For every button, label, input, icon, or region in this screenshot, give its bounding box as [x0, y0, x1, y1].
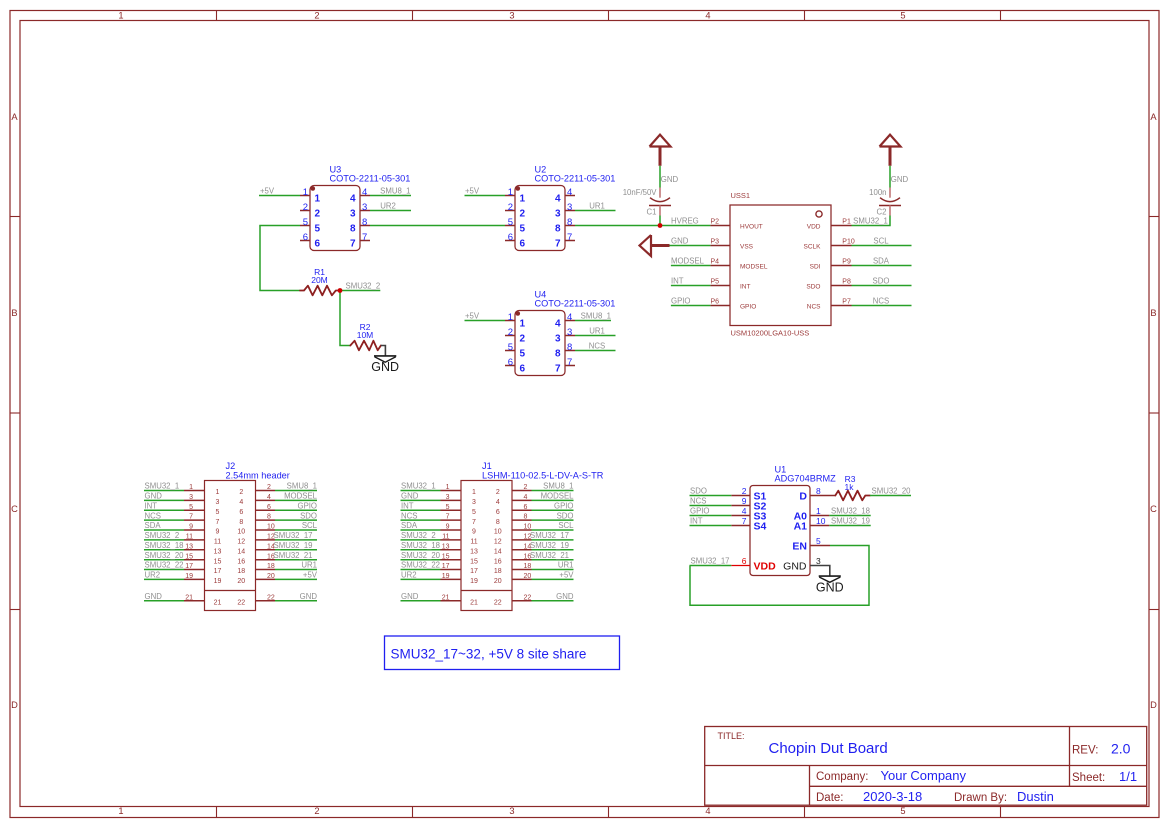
wire net SDO to U1	[690, 487, 732, 496]
frame column numbers bottom	[118, 806, 905, 816]
svg-text:SDO: SDO	[873, 277, 890, 286]
wire net NCS at USS1 P7	[852, 297, 912, 306]
svg-text:SCL: SCL	[302, 521, 318, 530]
svg-text:P9: P9	[842, 259, 851, 266]
svg-text:15: 15	[214, 558, 222, 565]
svg-text:8: 8	[555, 224, 561, 235]
svg-text:14: 14	[237, 549, 245, 556]
svg-text:+5V: +5V	[465, 187, 480, 196]
svg-text:4: 4	[555, 319, 561, 330]
svg-text:13: 13	[185, 543, 193, 550]
svg-text:18: 18	[494, 568, 502, 575]
svg-text:COTO-2211-05-301: COTO-2211-05-301	[330, 173, 411, 183]
svg-text:1: 1	[315, 194, 321, 205]
svg-text:SDA: SDA	[145, 521, 162, 530]
svg-text:6: 6	[303, 232, 308, 243]
wire net MODSEL at USS1 P4	[671, 257, 711, 266]
junction node SMU32_2	[338, 288, 343, 293]
svg-text:2: 2	[508, 202, 513, 213]
svg-text:22: 22	[494, 600, 502, 607]
frame row letters	[11, 112, 1157, 710]
wire net SMU8_1 from U3 pin 4	[370, 187, 411, 196]
wire net HVREG bus U3 pin5/pin8 to U2 pin5	[259, 225, 505, 227]
svg-text:4: 4	[567, 312, 572, 323]
relay U4 COTO-2211-05-301	[505, 289, 615, 375]
wire net NCS from U4 pin 8	[575, 342, 616, 351]
svg-text:3: 3	[350, 209, 356, 220]
svg-text:18: 18	[524, 563, 532, 570]
svg-text:1/1: 1/1	[1119, 769, 1137, 784]
ground GND at R2	[371, 346, 399, 374]
svg-text:8: 8	[555, 349, 561, 360]
svg-text:6: 6	[524, 504, 528, 511]
svg-text:4: 4	[239, 499, 243, 506]
svg-text:Drawn By:: Drawn By:	[954, 792, 1007, 804]
svg-text:2.0: 2.0	[1111, 741, 1131, 757]
svg-text:8: 8	[816, 486, 821, 496]
svg-text:SMU32_22: SMU32_22	[145, 561, 184, 570]
svg-text:7: 7	[362, 232, 367, 243]
svg-text:GND: GND	[816, 581, 844, 595]
svg-text:USS1: USS1	[731, 191, 751, 200]
svg-text:3: 3	[509, 806, 514, 816]
svg-text:7: 7	[567, 357, 572, 368]
svg-text:COTO-2211-05-301: COTO-2211-05-301	[535, 298, 616, 308]
svg-text:12: 12	[494, 539, 502, 546]
svg-text:D: D	[11, 700, 18, 710]
svg-text:5: 5	[520, 349, 526, 360]
svg-text:22: 22	[237, 600, 245, 607]
svg-text:EN: EN	[792, 541, 807, 553]
svg-text:8: 8	[239, 519, 243, 526]
svg-text:SMU32_2: SMU32_2	[145, 531, 180, 540]
svg-text:2: 2	[524, 484, 528, 491]
svg-text:A: A	[11, 112, 18, 122]
power flag GND above C2	[880, 135, 909, 188]
svg-text:2: 2	[520, 334, 526, 345]
svg-text:SMU32_2: SMU32_2	[401, 531, 436, 540]
svg-text:SCL: SCL	[873, 237, 889, 246]
svg-text:P5: P5	[710, 279, 719, 286]
svg-text:3: 3	[816, 556, 821, 566]
svg-text:18: 18	[237, 568, 245, 575]
connector J2 2.54mm header	[144, 461, 318, 611]
svg-text:11: 11	[470, 539, 477, 546]
svg-text:NCS: NCS	[589, 342, 605, 351]
svg-text:GPIO: GPIO	[740, 304, 756, 311]
svg-text:GND: GND	[891, 175, 909, 184]
svg-text:C: C	[11, 504, 18, 514]
svg-text:9: 9	[472, 529, 476, 536]
sheet text	[1072, 769, 1137, 784]
svg-text:7: 7	[446, 514, 450, 521]
svg-text:2: 2	[508, 327, 513, 338]
svg-text:NCS: NCS	[145, 511, 161, 520]
svg-text:INT: INT	[401, 502, 414, 511]
svg-text:P4: P4	[710, 259, 719, 266]
svg-text:21: 21	[214, 600, 222, 607]
wire U1 EN loop to VDD	[690, 546, 869, 606]
svg-text:21: 21	[185, 594, 193, 601]
svg-text:8: 8	[362, 217, 367, 228]
svg-text:8: 8	[567, 342, 572, 353]
svg-text:100n: 100n	[869, 188, 886, 197]
svg-text:C: C	[1150, 504, 1157, 514]
svg-text:B: B	[1150, 308, 1156, 318]
svg-text:SCLK: SCLK	[804, 244, 822, 251]
svg-text:6: 6	[496, 509, 500, 516]
svg-text:5: 5	[520, 224, 526, 235]
svg-text:19: 19	[185, 573, 193, 580]
svg-text:4: 4	[567, 187, 572, 198]
svg-text:10: 10	[816, 516, 826, 526]
svg-text:5: 5	[446, 504, 450, 511]
wire HVREG bus left drop to R1	[260, 226, 300, 291]
wire net UR2 from U3 pin 3	[370, 202, 411, 211]
svg-text:SMU32_17: SMU32_17	[530, 531, 569, 540]
net label HVREG at USS1 P2	[671, 217, 699, 226]
svg-text:GND: GND	[300, 592, 318, 601]
svg-text:5: 5	[900, 806, 905, 816]
svg-text:9: 9	[446, 524, 450, 531]
capacitor C1 10nF/50V	[623, 188, 671, 226]
title text	[718, 731, 888, 757]
svg-text:C1: C1	[647, 208, 657, 217]
wire net SDA at USS1 P9	[852, 257, 912, 266]
svg-text:4: 4	[555, 194, 561, 205]
svg-text:4: 4	[350, 194, 356, 205]
svg-text:P1: P1	[842, 219, 851, 226]
svg-text:11: 11	[186, 534, 193, 541]
svg-text:1: 1	[446, 484, 450, 491]
svg-text:SMU32_1: SMU32_1	[853, 217, 888, 226]
relay U3 COTO-2211-05-301	[300, 164, 410, 250]
svg-text:SDO: SDO	[557, 511, 574, 520]
svg-text:UR1: UR1	[589, 327, 605, 336]
svg-text:2: 2	[267, 484, 271, 491]
svg-text:SCL: SCL	[558, 521, 574, 530]
svg-text:SMU32_20: SMU32_20	[872, 487, 912, 496]
svg-text:GND: GND	[371, 360, 399, 374]
analog switch U1 ADG704BRMZ	[731, 465, 836, 577]
svg-text:8: 8	[496, 519, 500, 526]
svg-text:3: 3	[567, 202, 572, 213]
svg-text:2: 2	[742, 486, 747, 496]
svg-text:7: 7	[555, 239, 561, 250]
wire net UR1 from U2 pin 3	[575, 202, 616, 211]
svg-text:5: 5	[216, 509, 220, 516]
svg-text:B: B	[11, 308, 17, 318]
svg-text:2.54mm header: 2.54mm header	[226, 470, 290, 480]
svg-text:MODSEL: MODSEL	[740, 264, 768, 271]
svg-text:8: 8	[350, 224, 356, 235]
svg-text:2: 2	[303, 202, 308, 213]
svg-text:SDO: SDO	[300, 511, 317, 520]
power flag GND above C1	[650, 135, 679, 188]
svg-text:VDD: VDD	[754, 561, 777, 573]
svg-text:TITLE:: TITLE:	[718, 731, 745, 741]
svg-text:+5V: +5V	[260, 187, 275, 196]
svg-text:4: 4	[362, 187, 367, 198]
svg-text:7: 7	[567, 232, 572, 243]
svg-text:5: 5	[303, 217, 308, 228]
svg-text:5: 5	[472, 509, 476, 516]
svg-text:SMU32_18: SMU32_18	[401, 541, 440, 550]
frame column numbers top	[118, 10, 905, 20]
wire net SMU32_2 from R1	[340, 282, 380, 291]
capacitor C2 100n	[869, 188, 901, 217]
wire net GPIO to U1	[690, 507, 732, 516]
resistor R3 1k	[835, 474, 870, 500]
svg-text:P10: P10	[842, 239, 855, 246]
svg-text:8: 8	[267, 514, 271, 521]
svg-text:6: 6	[520, 239, 526, 250]
svg-text:SDO: SDO	[690, 487, 707, 496]
svg-text:3: 3	[446, 494, 450, 501]
svg-text:20M: 20M	[311, 275, 328, 285]
svg-text:SDI: SDI	[810, 264, 821, 271]
svg-text:5: 5	[508, 217, 513, 228]
svg-text:A: A	[1150, 112, 1157, 122]
svg-text:2: 2	[496, 489, 500, 496]
rev text	[1072, 741, 1131, 757]
svg-text:SMU8_1: SMU8_1	[287, 482, 317, 491]
svg-text:P3: P3	[710, 239, 719, 246]
wire net SCL at USS1 P10	[852, 237, 912, 246]
svg-text:P7: P7	[842, 299, 851, 306]
svg-text:4: 4	[705, 10, 710, 20]
svg-text:3: 3	[216, 499, 220, 506]
svg-text:Your Company: Your Company	[881, 768, 967, 783]
svg-text:USM10200LGA10-USS: USM10200LGA10-USS	[731, 329, 810, 338]
svg-text:6: 6	[315, 239, 321, 250]
svg-text:GND: GND	[783, 561, 807, 573]
svg-text:SMU32_19: SMU32_19	[530, 541, 569, 550]
svg-text:P6: P6	[710, 299, 719, 306]
svg-text:9: 9	[742, 496, 747, 506]
svg-text:UR2: UR2	[145, 571, 161, 580]
svg-text:HVOUT: HVOUT	[740, 224, 763, 231]
wire net SMU8_1 from U4 pin 4	[575, 312, 611, 321]
svg-text:4: 4	[742, 506, 747, 516]
svg-text:1: 1	[216, 489, 220, 496]
svg-text:HVREG: HVREG	[671, 217, 699, 226]
svg-text:10: 10	[237, 529, 245, 536]
svg-text:3: 3	[567, 327, 572, 338]
ground flag GND at USS1 P3	[640, 235, 711, 256]
svg-text:1: 1	[472, 489, 476, 496]
svg-text:MODSEL: MODSEL	[284, 492, 318, 501]
svg-text:SMU32_20: SMU32_20	[401, 551, 441, 560]
svg-text:17: 17	[470, 568, 478, 575]
svg-text:13: 13	[214, 549, 222, 556]
svg-text:17: 17	[442, 563, 450, 570]
svg-text:18: 18	[267, 563, 275, 570]
svg-text:2: 2	[315, 209, 321, 220]
svg-text:MODSEL: MODSEL	[671, 257, 705, 266]
svg-text:SMU32_17: SMU32_17	[274, 531, 313, 540]
svg-text:UR2: UR2	[401, 571, 417, 580]
svg-text:LSHM-110-02.5-L-DV-A-S-TR: LSHM-110-02.5-L-DV-A-S-TR	[482, 470, 604, 480]
svg-text:3: 3	[555, 334, 561, 345]
svg-text:10M: 10M	[357, 330, 374, 340]
svg-text:3: 3	[509, 10, 514, 20]
svg-text:INT: INT	[740, 284, 751, 291]
svg-text:7: 7	[216, 519, 220, 526]
svg-text:GND: GND	[145, 492, 163, 501]
svg-text:S4: S4	[754, 521, 767, 533]
svg-text:10: 10	[267, 524, 275, 531]
resistor R2 10M	[350, 322, 381, 350]
svg-text:6: 6	[520, 364, 526, 375]
svg-text:10nF/50V: 10nF/50V	[623, 188, 658, 197]
date text	[816, 789, 1054, 804]
svg-text:1k: 1k	[845, 482, 855, 492]
wire net SMU32_19 from U1 A1	[829, 517, 870, 526]
svg-text:Date:: Date:	[816, 792, 844, 804]
resistor R1 20M	[300, 267, 340, 295]
svg-text:21: 21	[470, 600, 478, 607]
svg-text:16: 16	[494, 558, 502, 565]
svg-text:20: 20	[494, 578, 502, 585]
svg-text:21: 21	[442, 594, 450, 601]
svg-text:5: 5	[315, 224, 321, 235]
svg-text:GND: GND	[671, 237, 689, 246]
svg-text:SDO: SDO	[806, 284, 820, 291]
svg-text:15: 15	[442, 553, 450, 560]
svg-text:7: 7	[350, 239, 356, 250]
svg-text:20: 20	[237, 578, 245, 585]
svg-text:GND: GND	[401, 592, 419, 601]
svg-text:INT: INT	[690, 517, 703, 526]
wire net SMU32_20 from R3	[870, 487, 911, 496]
wire net SDO at USS1 P8	[852, 277, 912, 286]
svg-text:15: 15	[470, 558, 478, 565]
svg-text:Dustin: Dustin	[1017, 789, 1054, 804]
svg-text:2: 2	[314, 806, 319, 816]
svg-text:19: 19	[470, 578, 478, 585]
svg-text:3: 3	[472, 499, 476, 506]
connector J1 LSHM-110-02.5-L-DV-A-S-TR	[401, 461, 604, 611]
svg-text:P2: P2	[710, 219, 719, 226]
svg-text:19: 19	[442, 573, 450, 580]
svg-text:10: 10	[494, 529, 502, 536]
svg-text:NCS: NCS	[401, 511, 417, 520]
svg-text:SMU32_19: SMU32_19	[831, 517, 870, 526]
wire net +5V to U4 pin 1	[465, 312, 506, 321]
svg-text:2: 2	[239, 489, 243, 496]
svg-text:11: 11	[214, 539, 221, 546]
svg-text:4: 4	[705, 806, 710, 816]
svg-text:GND: GND	[556, 592, 574, 601]
svg-text:5: 5	[816, 536, 821, 546]
svg-text:6: 6	[239, 509, 243, 516]
svg-text:NCS: NCS	[807, 304, 821, 311]
svg-text:13: 13	[470, 549, 478, 556]
svg-text:6: 6	[267, 504, 271, 511]
wire net +5V to U2 pin 1	[465, 187, 506, 196]
svg-text:13: 13	[442, 543, 450, 550]
svg-text:+5V: +5V	[303, 571, 318, 580]
svg-text:SMU32_21: SMU32_21	[530, 551, 569, 560]
svg-text:COTO-2211-05-301: COTO-2211-05-301	[535, 173, 616, 183]
svg-text:SMU32_18: SMU32_18	[831, 507, 870, 516]
svg-text:SMU8_1: SMU8_1	[543, 482, 573, 491]
svg-text:SDA: SDA	[401, 521, 418, 530]
svg-text:7: 7	[555, 364, 561, 375]
svg-text:GPIO: GPIO	[298, 502, 318, 511]
svg-text:UR2: UR2	[380, 202, 396, 211]
svg-text:SMU32_1: SMU32_1	[401, 482, 436, 491]
svg-text:SMU32_18: SMU32_18	[145, 541, 184, 550]
svg-text:17: 17	[185, 563, 193, 570]
svg-text:8: 8	[524, 514, 528, 521]
svg-text:5: 5	[189, 504, 193, 511]
junction node HVREG at C1	[658, 223, 663, 228]
svg-text:2: 2	[314, 10, 319, 20]
svg-text:A1: A1	[794, 521, 808, 533]
svg-text:1: 1	[118, 806, 123, 816]
svg-text:8: 8	[567, 217, 572, 228]
svg-text:INT: INT	[145, 502, 158, 511]
svg-text:7: 7	[742, 516, 747, 526]
svg-text:D: D	[1150, 700, 1157, 710]
note box SMU32 share	[385, 636, 620, 670]
svg-text:3: 3	[189, 494, 193, 501]
svg-text:1: 1	[189, 484, 193, 491]
svg-text:INT: INT	[671, 277, 684, 286]
svg-text:VDD: VDD	[807, 224, 821, 231]
svg-text:4: 4	[496, 499, 500, 506]
svg-text:D: D	[799, 491, 807, 503]
svg-text:SMU8_1: SMU8_1	[380, 187, 410, 196]
svg-text:GPIO: GPIO	[554, 502, 574, 511]
svg-text:SMU32_20: SMU32_20	[145, 551, 185, 560]
wire net SMU32_1 USS1 P1 to C2	[852, 216, 891, 226]
relay U2 COTO-2211-05-301	[505, 164, 615, 250]
svg-text:1: 1	[520, 194, 526, 205]
svg-text:5: 5	[508, 342, 513, 353]
svg-text:REV:: REV:	[1072, 745, 1098, 757]
svg-text:9: 9	[216, 529, 220, 536]
wire net GPIO at USS1 P6	[671, 297, 711, 306]
svg-text:+5V: +5V	[465, 312, 480, 321]
svg-text:11: 11	[442, 534, 449, 541]
module USS1 USM10200LGA10-USS	[710, 191, 854, 337]
svg-text:1: 1	[118, 10, 123, 20]
wire net +5V to U3 pin 1	[259, 187, 300, 196]
svg-text:15: 15	[185, 553, 193, 560]
svg-text:GND: GND	[401, 492, 419, 501]
svg-text:Chopin Dut Board: Chopin Dut Board	[769, 740, 888, 757]
svg-text:1: 1	[303, 187, 308, 198]
wire junction down to R2	[340, 291, 350, 346]
svg-text:2020-3-18: 2020-3-18	[863, 789, 922, 804]
wire net UR1 from U4 pin 3	[575, 327, 616, 336]
svg-text:20: 20	[524, 573, 532, 580]
svg-text:NCS: NCS	[873, 297, 889, 306]
svg-text:ADG704BRMZ: ADG704BRMZ	[775, 474, 837, 484]
svg-text:SMU32_21: SMU32_21	[274, 551, 313, 560]
svg-text:SMU32_1: SMU32_1	[145, 482, 180, 491]
svg-text:SMU32_17: SMU32_17	[691, 557, 730, 566]
wire net SMU32_17 to U1 VDD	[690, 557, 732, 566]
wire HVREG bus U2 pin8 to USS1 HVOUT	[575, 225, 710, 227]
svg-text:14: 14	[494, 549, 502, 556]
svg-text:UR1: UR1	[589, 202, 605, 211]
svg-text:SMU32_22: SMU32_22	[401, 561, 440, 570]
ground GND at U1 pin 3	[816, 576, 844, 594]
